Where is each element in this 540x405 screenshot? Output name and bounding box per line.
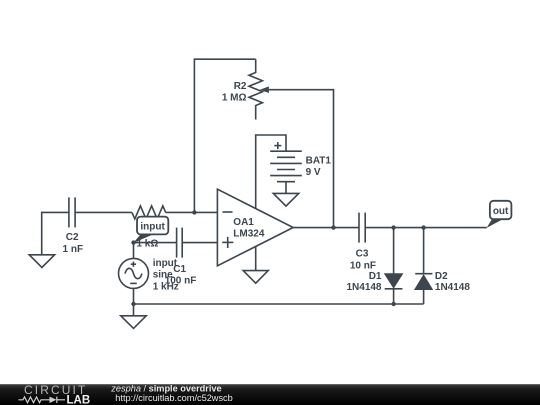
svg-text:D2: D2 xyxy=(435,271,448,282)
diode D2 xyxy=(415,228,432,304)
wire C2 left to ground xyxy=(42,212,69,254)
wire feedback left loop xyxy=(194,59,255,212)
svg-text:sine: sine xyxy=(153,270,173,281)
ground below battery xyxy=(273,182,298,206)
potentiometer R2 xyxy=(249,59,269,119)
wire R2 wiper to output node xyxy=(269,90,334,228)
wire C1 to op-amp non-inverting input xyxy=(182,242,217,244)
ground below V1 xyxy=(121,304,146,328)
svg-text:9 V: 9 V xyxy=(306,167,321,178)
svg-text:1N4148: 1N4148 xyxy=(435,282,470,293)
svg-text:C3: C3 xyxy=(356,249,369,260)
footer logo squiggle xyxy=(19,397,66,403)
svg-text:BAT1: BAT1 xyxy=(306,156,332,167)
wire C3 to out xyxy=(365,227,487,229)
wire V1 to ground rail xyxy=(133,288,135,304)
svg-text:1 kΩ: 1 kΩ xyxy=(136,239,158,250)
voltage source V1 xyxy=(119,243,149,289)
svg-text:LAB: LAB xyxy=(67,394,91,405)
ground below C2 xyxy=(29,255,54,268)
svg-text:R2: R2 xyxy=(234,81,247,92)
node D1 bottom junction xyxy=(391,302,395,306)
svg-text:http://circuitlab.com/c52wscb: http://circuitlab.com/c52wscb xyxy=(115,393,232,403)
node V1 ground junction xyxy=(131,302,135,306)
node out with flag xyxy=(487,201,512,228)
op-amp OA1 xyxy=(217,189,293,266)
wire R1 to op-amp inverting input xyxy=(166,211,218,213)
wire C2 to R1 xyxy=(75,211,132,213)
svg-text:OA1: OA1 xyxy=(233,217,254,228)
svg-text:1N4148: 1N4148 xyxy=(346,282,381,293)
battery BAT1 xyxy=(270,142,302,182)
svg-text:10 nF: 10 nF xyxy=(350,260,376,271)
svg-text:input: input xyxy=(153,258,178,269)
ground below op-amp xyxy=(243,271,268,284)
resistor R1 xyxy=(132,206,166,219)
node input with flag xyxy=(131,217,168,245)
diode D1 xyxy=(385,228,403,304)
node feedback takeoff xyxy=(331,225,335,229)
wire bottom rail xyxy=(134,303,424,305)
svg-text:1 MΩ: 1 MΩ xyxy=(222,92,247,103)
svg-text:1 kHz: 1 kHz xyxy=(153,281,179,292)
svg-text:out: out xyxy=(493,206,509,217)
capacitor C3 xyxy=(359,213,365,243)
svg-text:C2: C2 xyxy=(66,232,79,243)
node D1 top junction xyxy=(391,225,395,229)
capacitor C1 xyxy=(177,228,183,258)
capacitor C2 xyxy=(69,197,75,227)
node D2 top junction xyxy=(421,225,425,229)
wire op-amp V+ pin to battery xyxy=(256,135,286,209)
svg-text:input: input xyxy=(140,222,165,233)
svg-text:LM324: LM324 xyxy=(233,229,265,240)
wire op-amp V- pin xyxy=(255,247,257,271)
svg-text:1 nF: 1 nF xyxy=(63,244,84,255)
node feedback junction xyxy=(192,210,196,214)
wire input node to C1 xyxy=(134,242,177,244)
svg-text:D1: D1 xyxy=(369,271,382,282)
wire op-amp output to C3 xyxy=(293,227,359,229)
